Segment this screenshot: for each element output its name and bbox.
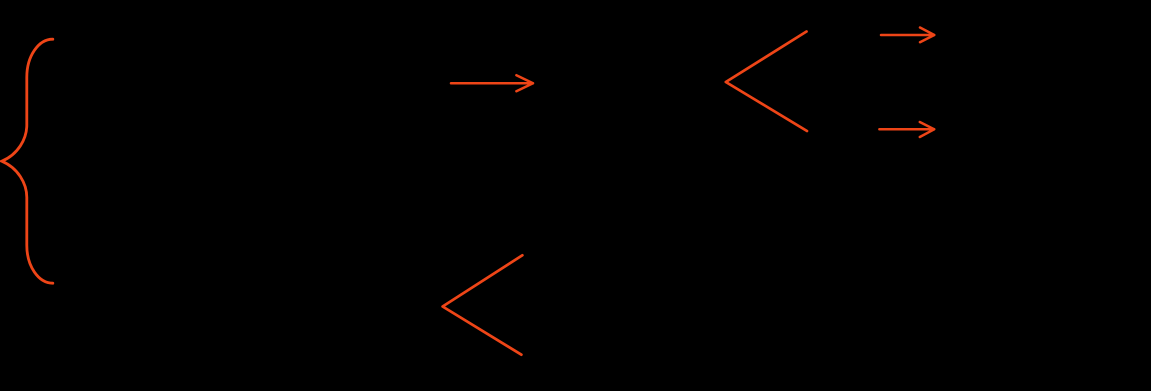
left curly brace (groups list at left) [2,39,53,283]
branch angle B2 (lower less-than, splits into two) [443,255,523,354]
branch angle B1 (big less-than, splits into two) [726,32,807,132]
arrow A1 (middle left, points right) [451,75,533,91]
arrow A2 (upper right, points right) [881,28,934,43]
arrow A3 (lower right, points right) [879,122,934,137]
